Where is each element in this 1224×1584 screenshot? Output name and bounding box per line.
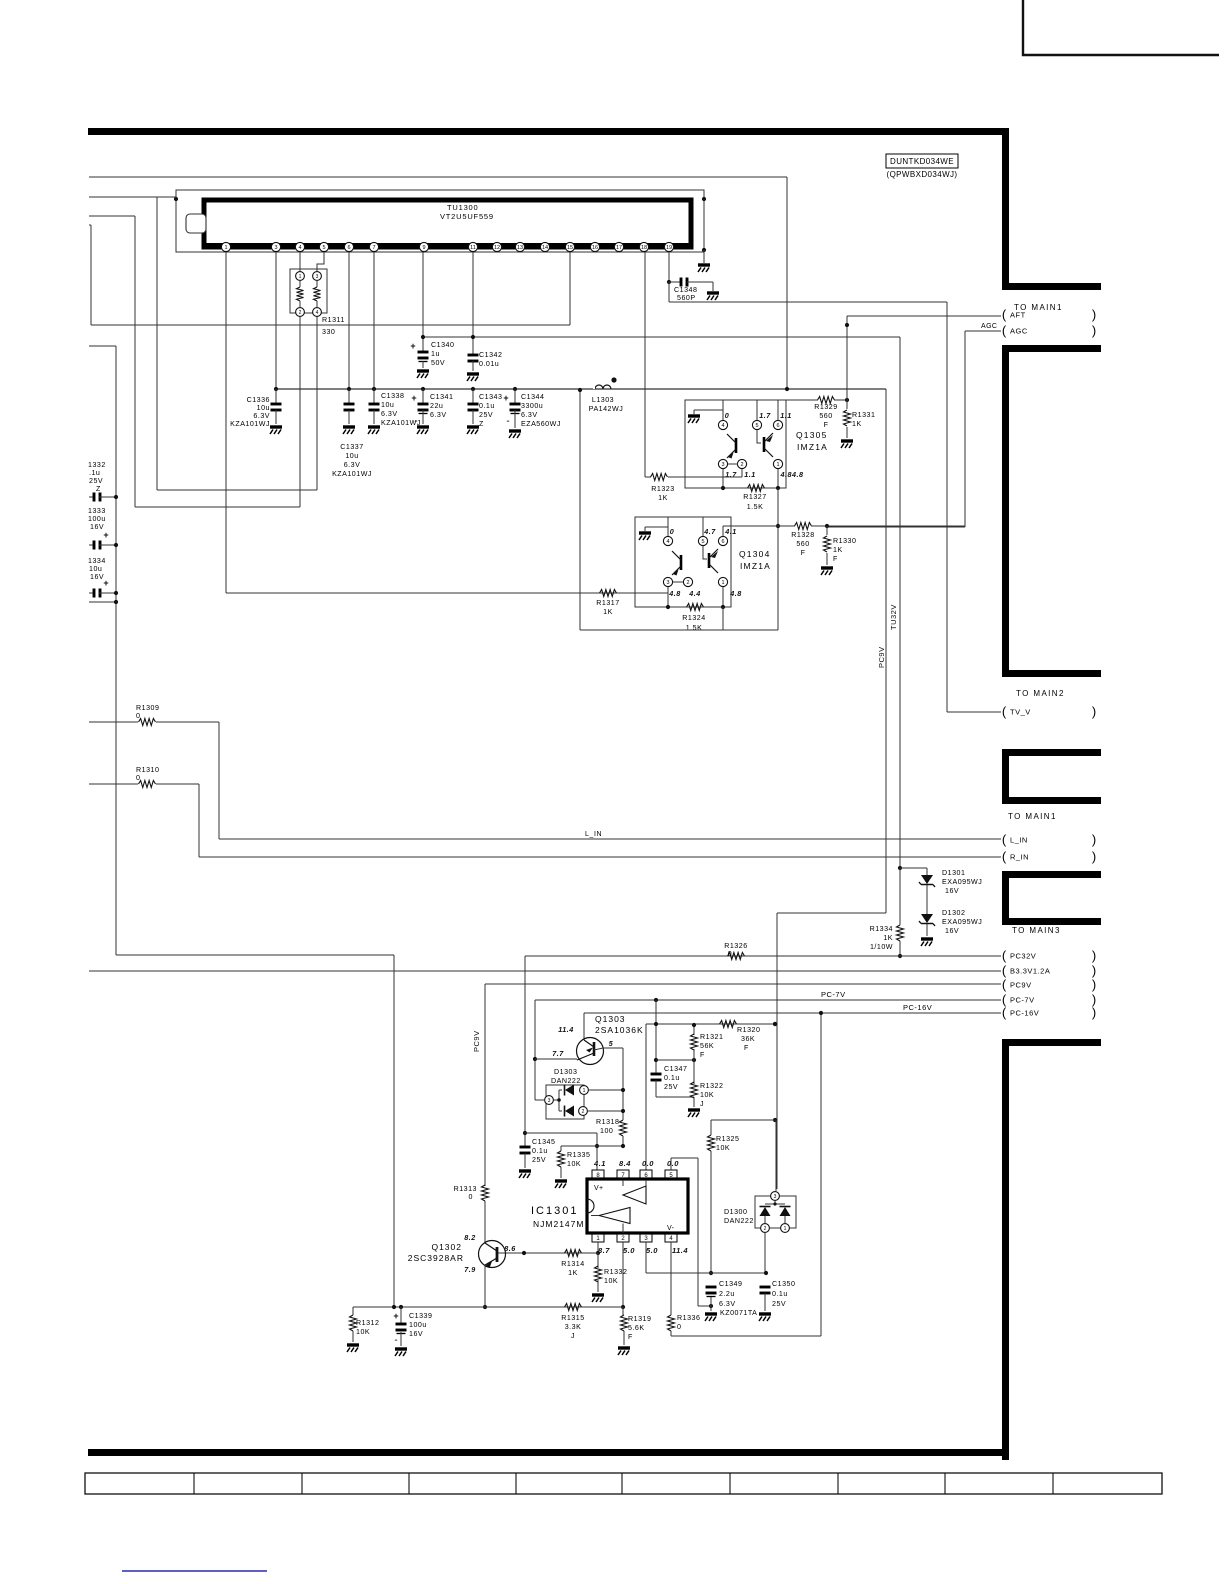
svg-text:(: ( bbox=[1002, 704, 1007, 719]
svg-text:R1314: R1314 bbox=[561, 1260, 584, 1268]
svg-text:0.01u: 0.01u bbox=[479, 360, 499, 368]
svg-text:Z: Z bbox=[96, 485, 101, 493]
svg-text:1K: 1K bbox=[568, 1269, 578, 1277]
svg-text:R1318: R1318 bbox=[596, 1118, 619, 1126]
svg-text:(: ( bbox=[1002, 323, 1007, 338]
svg-text:(: ( bbox=[1002, 963, 1007, 978]
svg-text:1332: 1332 bbox=[88, 461, 106, 469]
svg-text:R1332: R1332 bbox=[604, 1268, 627, 1276]
svg-text:4.4: 4.4 bbox=[688, 589, 701, 598]
svg-text:10u: 10u bbox=[257, 404, 270, 412]
svg-text:R1326: R1326 bbox=[724, 942, 747, 950]
svg-text:16V: 16V bbox=[90, 573, 104, 581]
svg-text:0: 0 bbox=[677, 1323, 681, 1331]
svg-text:R1328: R1328 bbox=[791, 531, 814, 539]
svg-text:3: 3 bbox=[774, 1194, 777, 1200]
svg-text:5: 5 bbox=[701, 539, 704, 545]
svg-text:(: ( bbox=[1002, 832, 1007, 847]
svg-text:15: 15 bbox=[567, 245, 573, 251]
svg-text:6.3V: 6.3V bbox=[381, 410, 398, 418]
svg-text:11.4: 11.4 bbox=[672, 1246, 688, 1255]
svg-text:11.4: 11.4 bbox=[558, 1025, 573, 1034]
svg-text:R1324: R1324 bbox=[682, 614, 705, 622]
svg-text:D1302: D1302 bbox=[942, 909, 965, 917]
svg-text:DUNTKD034WE: DUNTKD034WE bbox=[890, 157, 954, 166]
svg-text:6.3V: 6.3V bbox=[430, 411, 447, 419]
svg-text:+: + bbox=[393, 1311, 398, 1321]
svg-text:R1320: R1320 bbox=[737, 1026, 760, 1034]
svg-text:EXA095WJ: EXA095WJ bbox=[942, 918, 982, 926]
svg-text:PC-16V: PC-16V bbox=[903, 1003, 932, 1012]
svg-text:1: 1 bbox=[299, 274, 302, 280]
svg-text:0: 0 bbox=[136, 712, 140, 720]
svg-text:L_IN: L_IN bbox=[585, 831, 602, 838]
svg-text:16V: 16V bbox=[945, 887, 959, 895]
svg-text:D1303: D1303 bbox=[554, 1068, 577, 1076]
svg-text:IC1301: IC1301 bbox=[531, 1205, 578, 1217]
svg-text:1K: 1K bbox=[603, 608, 613, 616]
svg-text:R1322: R1322 bbox=[700, 1082, 723, 1090]
svg-text:16V: 16V bbox=[90, 523, 104, 531]
svg-text:0.1u: 0.1u bbox=[532, 1147, 548, 1155]
svg-text:+: + bbox=[411, 393, 416, 403]
svg-text:22u: 22u bbox=[430, 402, 443, 410]
svg-text:6: 6 bbox=[776, 423, 779, 429]
svg-text:R1335: R1335 bbox=[567, 1151, 590, 1159]
svg-text:R1319: R1319 bbox=[628, 1315, 651, 1323]
svg-text:10K: 10K bbox=[604, 1277, 618, 1285]
svg-text:2: 2 bbox=[740, 462, 743, 468]
svg-text:L1303: L1303 bbox=[592, 396, 614, 404]
svg-text:2: 2 bbox=[299, 310, 302, 316]
svg-text:PA142WJ: PA142WJ bbox=[589, 405, 624, 413]
svg-text:9: 9 bbox=[422, 245, 425, 251]
svg-text:4.1: 4.1 bbox=[593, 1159, 606, 1168]
svg-text:PC32V: PC32V bbox=[1010, 952, 1036, 961]
svg-text:Z: Z bbox=[479, 420, 484, 428]
svg-text:+: + bbox=[103, 578, 108, 588]
svg-text:Q1302: Q1302 bbox=[431, 1242, 462, 1252]
svg-text:560: 560 bbox=[796, 540, 809, 548]
svg-text:1.7: 1.7 bbox=[725, 470, 737, 479]
svg-text:6: 6 bbox=[721, 539, 724, 545]
svg-text:TO MAIN3: TO MAIN3 bbox=[1012, 926, 1061, 935]
svg-text:0.1u: 0.1u bbox=[664, 1074, 680, 1082]
svg-text:-: - bbox=[414, 416, 417, 427]
svg-text:1u: 1u bbox=[431, 350, 440, 358]
svg-text:4: 4 bbox=[316, 310, 319, 316]
svg-text:R1323: R1323 bbox=[651, 485, 674, 493]
svg-text:DAN222: DAN222 bbox=[551, 1077, 581, 1085]
svg-text:5.0: 5.0 bbox=[646, 1246, 658, 1255]
svg-text:Q1303: Q1303 bbox=[595, 1014, 626, 1024]
svg-text:TU32V: TU32V bbox=[889, 604, 898, 630]
svg-text:R1315: R1315 bbox=[561, 1314, 584, 1322]
svg-text:10K: 10K bbox=[700, 1091, 714, 1099]
svg-text:1333: 1333 bbox=[88, 507, 106, 515]
svg-text:16V: 16V bbox=[409, 1330, 423, 1338]
svg-text:1: 1 bbox=[583, 1088, 586, 1094]
svg-text:C1348: C1348 bbox=[674, 286, 697, 294]
svg-text:V+: V+ bbox=[594, 1185, 603, 1192]
svg-text:50V: 50V bbox=[431, 359, 445, 367]
svg-text:13: 13 bbox=[517, 245, 523, 251]
svg-text:7.9: 7.9 bbox=[464, 1265, 476, 1274]
svg-text:0.0: 0.0 bbox=[642, 1159, 654, 1168]
svg-text:C1350: C1350 bbox=[772, 1280, 795, 1288]
svg-text:R1313: R1313 bbox=[454, 1185, 477, 1193]
svg-text:AGC: AGC bbox=[1010, 327, 1028, 336]
svg-text:Q1305: Q1305 bbox=[796, 430, 828, 440]
svg-text:1.5K: 1.5K bbox=[747, 503, 764, 511]
svg-text:16V: 16V bbox=[945, 927, 959, 935]
svg-text:R1334: R1334 bbox=[870, 925, 893, 933]
svg-text:TO MAIN1: TO MAIN1 bbox=[1008, 812, 1057, 821]
svg-text:J: J bbox=[700, 1100, 704, 1108]
svg-text:0: 0 bbox=[469, 1193, 473, 1201]
svg-text:1K: 1K bbox=[852, 420, 862, 428]
svg-text:PC9V: PC9V bbox=[877, 646, 886, 668]
svg-text:7: 7 bbox=[372, 245, 375, 251]
svg-text:16: 16 bbox=[592, 245, 598, 251]
svg-text:VT2U5UF559: VT2U5UF559 bbox=[440, 212, 494, 221]
svg-text:+: + bbox=[503, 393, 508, 403]
svg-text:10K: 10K bbox=[356, 1328, 370, 1336]
svg-text:8.6: 8.6 bbox=[504, 1244, 516, 1253]
svg-text:1.1: 1.1 bbox=[744, 470, 756, 479]
svg-text:330: 330 bbox=[322, 328, 335, 336]
svg-text:C1347: C1347 bbox=[664, 1065, 687, 1073]
svg-text:3300u: 3300u bbox=[521, 402, 543, 410]
svg-text:1.5K: 1.5K bbox=[686, 624, 703, 632]
svg-text:(QPWBXD034WJ): (QPWBXD034WJ) bbox=[887, 170, 958, 179]
svg-text:4: 4 bbox=[721, 423, 724, 429]
svg-text:0: 0 bbox=[136, 774, 140, 782]
svg-text:6.3V: 6.3V bbox=[253, 412, 270, 420]
svg-text:): ) bbox=[1092, 977, 1096, 992]
svg-text:KZ0071TA: KZ0071TA bbox=[720, 1309, 757, 1317]
svg-text:PC-16V: PC-16V bbox=[1010, 1009, 1039, 1018]
svg-text:3.3K: 3.3K bbox=[565, 1323, 582, 1331]
svg-text:F: F bbox=[700, 1051, 705, 1059]
svg-text:14: 14 bbox=[542, 245, 548, 251]
svg-text:+: + bbox=[410, 341, 415, 351]
svg-text:+: + bbox=[103, 530, 108, 540]
svg-text:1: 1 bbox=[784, 1226, 787, 1232]
svg-text:): ) bbox=[1092, 704, 1096, 719]
svg-text:2SC3928AR: 2SC3928AR bbox=[408, 1253, 464, 1263]
svg-text:KZA101WJ: KZA101WJ bbox=[332, 470, 372, 478]
svg-text:): ) bbox=[1092, 832, 1096, 847]
svg-text:R1329: R1329 bbox=[814, 403, 837, 411]
svg-text:(: ( bbox=[1002, 977, 1007, 992]
svg-text:25V: 25V bbox=[532, 1156, 546, 1164]
svg-text:1334: 1334 bbox=[88, 557, 106, 565]
svg-text:2SA1036K: 2SA1036K bbox=[595, 1025, 644, 1035]
svg-text:1K: 1K bbox=[833, 546, 843, 554]
svg-text:5: 5 bbox=[755, 423, 758, 429]
svg-text:R1311: R1311 bbox=[322, 316, 345, 324]
svg-text:PC9V: PC9V bbox=[472, 1030, 481, 1052]
svg-text:NJM2147M: NJM2147M bbox=[533, 1219, 584, 1229]
svg-text:3: 3 bbox=[316, 274, 319, 280]
svg-text:(: ( bbox=[1002, 948, 1007, 963]
svg-text:.1u: .1u bbox=[89, 469, 100, 477]
svg-text:56K: 56K bbox=[700, 1042, 714, 1050]
svg-text:100: 100 bbox=[600, 1127, 613, 1135]
svg-text:C1344: C1344 bbox=[521, 393, 544, 401]
svg-text:C1343: C1343 bbox=[479, 393, 502, 401]
svg-text:1/10W: 1/10W bbox=[870, 943, 893, 951]
svg-text:25V: 25V bbox=[479, 411, 493, 419]
svg-text:F: F bbox=[628, 1333, 633, 1341]
svg-text:R1317: R1317 bbox=[596, 599, 619, 607]
svg-text:12: 12 bbox=[494, 245, 500, 251]
svg-text:10K: 10K bbox=[567, 1160, 581, 1168]
svg-text:): ) bbox=[1092, 963, 1096, 978]
svg-text:0.0: 0.0 bbox=[667, 1159, 679, 1168]
svg-text:): ) bbox=[1092, 307, 1096, 322]
svg-text:C1349: C1349 bbox=[719, 1280, 742, 1288]
svg-text:AFT: AFT bbox=[1010, 311, 1026, 320]
svg-text:F: F bbox=[824, 421, 829, 429]
svg-text:18: 18 bbox=[641, 245, 647, 251]
svg-text:J: J bbox=[571, 1332, 575, 1340]
svg-text:4.8: 4.8 bbox=[668, 589, 681, 598]
svg-text:4.84.8: 4.84.8 bbox=[780, 470, 804, 479]
svg-text:560P: 560P bbox=[677, 294, 696, 302]
svg-text:R1312: R1312 bbox=[356, 1319, 379, 1327]
svg-text:C1337: C1337 bbox=[340, 443, 363, 451]
svg-text:(: ( bbox=[1002, 1005, 1007, 1020]
svg-text:36K: 36K bbox=[741, 1035, 755, 1043]
svg-text:R1331: R1331 bbox=[852, 411, 875, 419]
svg-text:PC-7V: PC-7V bbox=[821, 990, 846, 999]
svg-text:4.7: 4.7 bbox=[703, 527, 716, 536]
svg-text:10u: 10u bbox=[345, 452, 358, 460]
svg-text:R1325: R1325 bbox=[716, 1135, 739, 1143]
svg-text:-: - bbox=[506, 416, 509, 427]
svg-text:): ) bbox=[1092, 948, 1096, 963]
svg-text:3: 3 bbox=[721, 462, 724, 468]
svg-text:560: 560 bbox=[819, 412, 832, 420]
svg-text:1.7: 1.7 bbox=[759, 411, 771, 420]
svg-text:TV_V: TV_V bbox=[1010, 708, 1031, 717]
svg-text:2: 2 bbox=[764, 1226, 767, 1232]
svg-text:C1338: C1338 bbox=[381, 392, 404, 400]
svg-text:C1341: C1341 bbox=[430, 393, 453, 401]
svg-text:C1342: C1342 bbox=[479, 351, 502, 359]
svg-text:R1309: R1309 bbox=[136, 704, 159, 712]
svg-text:1K: 1K bbox=[658, 494, 668, 502]
svg-text:0: 0 bbox=[670, 527, 675, 536]
svg-text:B3.3V1.2A: B3.3V1.2A bbox=[1010, 967, 1050, 976]
svg-text:R_IN: R_IN bbox=[1010, 853, 1029, 862]
svg-text:0: 0 bbox=[725, 411, 730, 420]
svg-text:19: 19 bbox=[666, 245, 672, 251]
svg-text:(: ( bbox=[1002, 849, 1007, 864]
svg-text:0.1u: 0.1u bbox=[479, 402, 495, 410]
svg-text:V-: V- bbox=[667, 1225, 675, 1232]
svg-text:(: ( bbox=[1002, 307, 1007, 322]
svg-text:5: 5 bbox=[322, 245, 325, 251]
svg-text:PC9V: PC9V bbox=[1010, 981, 1032, 990]
svg-text:EZA560WJ: EZA560WJ bbox=[521, 420, 561, 428]
svg-text:6.3V: 6.3V bbox=[521, 411, 538, 419]
svg-text:10u: 10u bbox=[89, 565, 102, 573]
svg-text:6.3V: 6.3V bbox=[344, 461, 361, 469]
svg-text:DAN222: DAN222 bbox=[724, 1217, 754, 1225]
svg-text:-: - bbox=[394, 1335, 397, 1346]
svg-text:2: 2 bbox=[686, 580, 689, 586]
svg-text:R1321: R1321 bbox=[700, 1033, 723, 1041]
svg-text:25V: 25V bbox=[664, 1083, 678, 1091]
svg-text:F: F bbox=[801, 549, 806, 557]
svg-text:D1301: D1301 bbox=[942, 869, 965, 877]
svg-text:1: 1 bbox=[776, 462, 779, 468]
svg-text:C1345: C1345 bbox=[532, 1138, 555, 1146]
svg-text:2: 2 bbox=[582, 1109, 585, 1115]
svg-text:C1339: C1339 bbox=[409, 1312, 432, 1320]
svg-text:10K: 10K bbox=[716, 1144, 730, 1152]
svg-text:TU1300: TU1300 bbox=[447, 203, 478, 212]
svg-text:5: 5 bbox=[609, 1041, 613, 1048]
svg-text:1K: 1K bbox=[883, 934, 893, 942]
svg-text:0.1u: 0.1u bbox=[772, 1290, 788, 1298]
svg-text:3: 3 bbox=[666, 580, 669, 586]
svg-text:F: F bbox=[833, 555, 838, 563]
svg-text:17: 17 bbox=[616, 245, 622, 251]
svg-text:100u: 100u bbox=[409, 1321, 427, 1329]
svg-text:R1330: R1330 bbox=[833, 537, 856, 545]
svg-text:11: 11 bbox=[470, 245, 476, 251]
svg-text:IMZ1A: IMZ1A bbox=[797, 442, 828, 452]
svg-text:8.4: 8.4 bbox=[619, 1159, 631, 1168]
svg-text:4: 4 bbox=[298, 245, 301, 251]
svg-text:C1336: C1336 bbox=[247, 396, 270, 404]
svg-text:): ) bbox=[1092, 323, 1096, 338]
svg-text:3: 3 bbox=[274, 245, 277, 251]
svg-text:KZA101WJ: KZA101WJ bbox=[230, 420, 270, 428]
svg-text:5.0: 5.0 bbox=[623, 1246, 635, 1255]
svg-text:AGC: AGC bbox=[981, 323, 997, 330]
svg-text:7.7: 7.7 bbox=[552, 1049, 564, 1058]
svg-text:2.2u: 2.2u bbox=[719, 1290, 735, 1298]
svg-text:8.2: 8.2 bbox=[464, 1233, 476, 1242]
svg-text:4.8: 4.8 bbox=[729, 589, 742, 598]
svg-text:IMZ1A: IMZ1A bbox=[740, 561, 771, 571]
svg-text:TO MAIN2: TO MAIN2 bbox=[1016, 689, 1065, 698]
svg-text:3: 3 bbox=[548, 1098, 551, 1104]
svg-text:6: 6 bbox=[347, 245, 350, 251]
svg-text:1: 1 bbox=[721, 580, 724, 586]
svg-text:4.1: 4.1 bbox=[724, 527, 737, 536]
svg-text:R1336: R1336 bbox=[677, 1314, 700, 1322]
svg-text:L_IN: L_IN bbox=[1010, 836, 1028, 845]
svg-text:1: 1 bbox=[224, 245, 227, 251]
svg-text:25V: 25V bbox=[772, 1300, 786, 1308]
svg-text:C1340: C1340 bbox=[431, 341, 454, 349]
svg-text:D1300: D1300 bbox=[724, 1208, 747, 1216]
svg-text:25V: 25V bbox=[89, 477, 103, 485]
svg-text:1.1: 1.1 bbox=[780, 411, 792, 420]
svg-text:4: 4 bbox=[666, 539, 669, 545]
svg-text:R1327: R1327 bbox=[743, 493, 766, 501]
svg-text:10u: 10u bbox=[381, 401, 394, 409]
svg-text:EXA095WJ: EXA095WJ bbox=[942, 878, 982, 886]
svg-text:5.6K: 5.6K bbox=[628, 1324, 645, 1332]
svg-text:R1310: R1310 bbox=[136, 766, 159, 774]
svg-text:0: 0 bbox=[728, 950, 732, 958]
svg-text:): ) bbox=[1092, 849, 1096, 864]
svg-text:F: F bbox=[744, 1044, 749, 1052]
svg-text:6.3V: 6.3V bbox=[719, 1300, 736, 1308]
svg-text:PC-7V: PC-7V bbox=[1010, 996, 1035, 1005]
svg-text:Q1304: Q1304 bbox=[739, 549, 771, 559]
svg-text:100u: 100u bbox=[88, 515, 106, 523]
svg-text:): ) bbox=[1092, 1005, 1096, 1020]
